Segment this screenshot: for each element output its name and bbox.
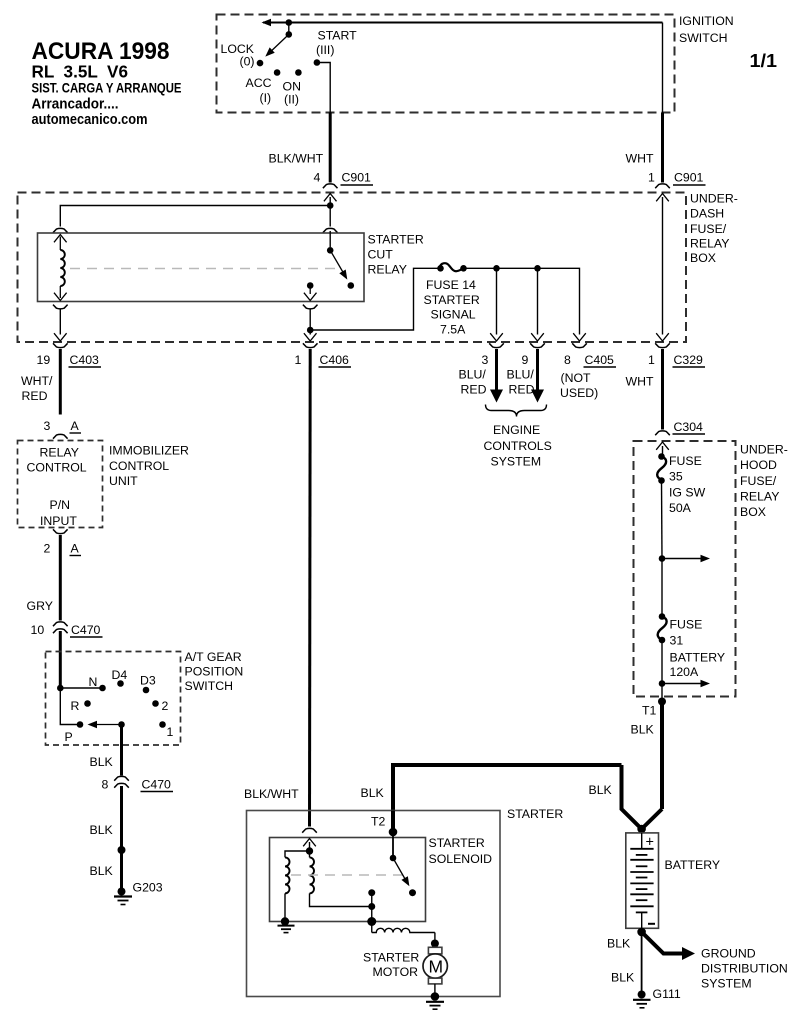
wire WHT to C304 [626,349,663,430]
svg-text:CUT: CUT [368,248,394,262]
svg-text:SIGNAL: SIGNAL [431,308,476,322]
wire ignition feed bus [263,22,663,24]
wire fuse 35 to tap [661,481,664,559]
wire A/T output BLK [90,725,122,776]
solenoid switch blade [393,858,416,896]
svg-text:GROUND: GROUND [701,947,756,961]
solenoid coil left [285,857,289,893]
switch rotor blade (pointing to LOCK) [263,34,289,59]
svg-text:CONTROL: CONTROL [109,459,169,473]
svg-text:BOX: BOX [690,251,716,265]
wire BLK to G111 [611,932,642,991]
svg-text:WHT: WHT [626,375,654,389]
svg-text:RED: RED [509,383,535,397]
wire solenoid input [303,839,316,852]
svg-text:BATTERY: BATTERY [670,651,726,665]
svg-text:1: 1 [648,171,655,185]
wire to ground distribution [607,932,695,960]
svg-text:SYSTEM: SYSTEM [491,455,542,469]
svg-text:C403: C403 [70,353,100,367]
node terminal T2 [371,815,397,837]
wire drop pin 3 [490,268,503,341]
solenoid input hump [302,828,317,832]
svg-text:(III): (III) [316,43,334,57]
node solenoid coils feed [306,847,313,854]
connector C901 pin 1 [648,171,706,189]
wire BLK/WHT to C901 [329,113,332,183]
svg-text:ENGINE: ENGINE [493,423,540,437]
relay pin hump right [323,228,338,232]
fuse F31 BATTERY 120A [658,613,725,679]
ground G111 [633,987,681,1008]
node tap 9 [534,265,541,272]
svg-text:A: A [71,419,80,433]
wire fuse 14 output bus [464,268,580,334]
svg-text:SIST. CARGA Y ARRANQUE: SIST. CARGA Y ARRANQUE [32,81,182,96]
svg-text:FUSE 14: FUSE 14 [426,278,476,292]
label not used pin 8 [560,371,598,400]
solenoid coil right [310,851,315,893]
node motor input [431,940,439,948]
svg-text:C901: C901 [342,171,372,185]
svg-text:BLK: BLK [607,937,631,951]
svg-text:UNDER-: UNDER- [690,192,738,206]
svg-text:USED): USED) [560,386,598,400]
svg-text:M: M [429,957,444,977]
svg-text:G111: G111 [653,987,681,1001]
immobilizer pin 2 A [44,529,82,555]
svg-text:8: 8 [564,353,571,367]
svg-text:BLK: BLK [90,823,114,837]
under-hood fuse/relay box [634,441,788,697]
svg-text:BLK: BLK [611,971,635,985]
node A/T input [57,685,64,692]
svg-text:CONTROLS: CONTROLS [484,439,552,453]
svg-text:BLK: BLK [361,786,385,800]
svg-text:N: N [89,675,98,689]
wire to N contact [60,687,102,689]
contact 2 [152,699,168,713]
node solenoid output [367,917,376,926]
wire BLK/WHT C406 to starter [244,349,310,827]
wire WHT/RED [21,349,60,415]
node relay feed junction [327,202,334,209]
svg-text:3: 3 [44,419,51,433]
relay switch upper contact [327,231,334,254]
fuse F14 [424,263,480,336]
svg-text:4: 4 [314,171,321,185]
svg-text:D4: D4 [112,668,128,682]
under-dash fuse/relay box [18,192,738,343]
svg-text:BOX: BOX [740,505,766,519]
motor feed coil [372,922,435,942]
svg-text:RELAY: RELAY [690,237,729,251]
relay coil [54,235,67,301]
A/T gear position switch box [46,650,244,745]
svg-text:ACC: ACC [246,76,272,90]
svg-text:31: 31 [670,634,684,648]
svg-text:T2: T2 [371,815,386,829]
svg-text:STARTER: STARTER [363,951,419,965]
wire to relay switch [329,206,331,227]
wire BLK/WHT entering box [324,194,337,206]
wire to pull-in coil [285,851,310,857]
motor ground [426,992,444,1009]
svg-text:BLU/: BLU/ [507,368,535,382]
svg-text:D3: D3 [140,674,156,688]
svg-text:9: 9 [522,353,529,367]
wire to fuse 14 [310,268,437,330]
svg-text:GRY: GRY [27,599,53,613]
svg-text:SWITCH: SWITCH [185,679,234,693]
wire entering under-hood box [656,442,669,455]
svg-text:STARTER: STARTER [424,293,480,307]
wire BLK T1 to battery [631,702,663,830]
node ignition bus junction [286,19,293,26]
svg-text:(I): (I) [260,91,272,105]
svg-text:2: 2 [44,542,51,556]
connector C329 pin 1 [648,343,705,367]
svg-text:POSITION: POSITION [185,665,244,679]
contact R [71,699,91,713]
node coil return [368,903,375,910]
relay pin hump left [53,228,68,232]
svg-text:RELAY: RELAY [368,263,407,277]
wire relay output [309,309,311,330]
svg-text:BLK/WHT: BLK/WHT [244,787,299,801]
svg-text:ON: ON [283,80,301,94]
wire down to fuse 31 [661,559,663,617]
node tap to other circuits 2 [659,680,710,687]
wire coil to C403 [53,305,68,341]
contact N [89,675,106,691]
label engine controls system [484,423,552,469]
svg-text:SWITCH: SWITCH [679,31,728,45]
svg-text:MOTOR: MOTOR [373,965,419,979]
svg-text:RELAY: RELAY [40,446,79,460]
svg-text:50A: 50A [669,501,692,515]
A/T rotor arm to P [88,721,125,728]
svg-text:C470: C470 [142,778,172,792]
svg-text:P/N: P/N [50,498,71,512]
node battery negative terminal [637,928,646,937]
svg-text:IGNITION: IGNITION [679,14,734,28]
svg-text:(II): (II) [284,93,299,107]
arrow to other circuits [262,19,272,26]
svg-text:1: 1 [648,353,655,367]
svg-text:FUSE: FUSE [669,454,702,468]
svg-text:INPUT: INPUT [40,514,77,528]
svg-text:1/1: 1/1 [750,50,778,71]
svg-text:START: START [318,29,358,43]
svg-text:CONTROL: CONTROL [27,461,87,475]
svg-text:G203: G203 [133,881,163,895]
svg-text:HOOD: HOOD [740,458,777,472]
svg-text:BLK: BLK [631,723,655,737]
switch rotor pivot [286,31,293,38]
svg-text:WHT: WHT [626,152,654,166]
brace engine controls [486,405,547,417]
svg-text:C304: C304 [674,420,704,434]
wire BLK T2 drop [391,811,395,830]
wire WHT inside switch box [662,23,664,113]
contact P [65,721,84,744]
svg-text:RELAY: RELAY [740,490,779,504]
node tap to other circuits [659,555,710,562]
svg-text:FUSE: FUSE [670,618,703,632]
svg-text:STARTER: STARTER [507,807,563,821]
svg-text:1: 1 [167,725,174,739]
wire BLK to splice [90,786,122,847]
wire WHT to C901 [661,113,664,183]
connector C470 pin 10 [31,622,103,637]
relay actuation dashed link [70,268,338,270]
starter solenoid box [270,836,493,922]
wire contact to motor node [371,893,373,922]
svg-text:10: 10 [31,623,45,637]
title block [32,38,778,128]
svg-text:7.5A: 7.5A [440,323,466,337]
svg-text:DISTRIBUTION: DISTRIBUTION [701,962,788,976]
svg-text:BLK: BLK [589,783,613,797]
svg-text:RED: RED [22,389,48,403]
svg-text:BLU/: BLU/ [459,368,487,382]
connector C304 [655,420,705,435]
svg-text:3: 3 [482,353,489,367]
contact ON (II) [295,69,302,76]
svg-text:(0): (0) [240,55,255,69]
wire drop pin 9 [531,268,544,341]
solenoid ground [278,917,295,932]
svg-text:120A: 120A [670,665,700,679]
relay output cup [303,305,318,309]
svg-text:35: 35 [669,470,683,484]
solenoid switch lower contact [368,889,375,896]
wire BLU/RED pin 9 [507,349,545,403]
wire to P contact [60,688,80,725]
node relay output junction [307,327,314,334]
relay switch lower contact [304,282,317,300]
contact D4 [112,668,128,687]
svg-text:STARTER: STARTER [368,233,424,247]
wire to relay coil [60,206,330,227]
node terminal T1 [642,698,666,718]
connector C405 pins 3 9 8 [482,343,617,367]
wire START to down run [317,63,330,113]
wire relay output to C406 [304,330,317,341]
svg-text:Arrancador....: Arrancador.... [32,96,119,113]
node tap 3 [493,265,500,272]
svg-text:2: 2 [162,699,169,713]
starter cut relay body [38,233,424,302]
contact LOCK (0) [257,60,264,67]
connector C901 pin 4 [314,171,374,189]
svg-text:BLK/WHT: BLK/WHT [269,152,324,166]
svg-text:UNDER-: UNDER- [740,443,788,457]
svg-text:C329: C329 [674,353,704,367]
svg-text:T1: T1 [642,704,657,718]
svg-text:C470: C470 [71,623,101,637]
connector C470 pin 8 [102,776,174,791]
svg-text:STARTER: STARTER [429,836,485,850]
wire drop pin 8 [573,333,586,341]
svg-text:BATTERY: BATTERY [665,858,721,872]
relay switch blade [330,250,354,289]
connector C403 pin 19 [37,343,102,367]
starter box [247,807,564,997]
svg-text:19: 19 [37,353,51,367]
wire into A/T switch [59,631,62,688]
contact START (III) [314,59,321,66]
ignition switch box [217,14,734,113]
svg-text:C405: C405 [585,353,615,367]
wire exit under-hood box [661,684,663,700]
svg-text:BLK: BLK [90,864,114,878]
svg-text:FUSE/: FUSE/ [690,222,727,236]
svg-text:WHT/: WHT/ [21,374,53,388]
svg-text:SYSTEM: SYSTEM [701,977,752,991]
svg-text:R: R [71,699,80,713]
svg-text:P: P [65,730,73,744]
wire BLK to ground [90,854,122,889]
wire coil right to contact [310,893,369,906]
svg-text:BLK: BLK [90,755,114,769]
label starter motor [363,951,419,980]
svg-text:C901: C901 [674,171,704,185]
ground G203 [114,881,163,905]
svg-text:C406: C406 [320,353,350,367]
svg-text:RL 3.5L V6: RL 3.5L V6 [32,62,129,82]
solenoid actuation dashed link [291,874,404,876]
fuse F35 IG SW 50A [657,453,705,515]
contact ACC (I) [274,69,281,76]
immobilizer pin 3 A [44,419,82,439]
wire rotor stem [288,23,290,35]
svg-text:IG SW: IG SW [669,486,706,500]
wire GRY [27,535,61,621]
starter motor M1 [423,947,447,993]
svg-text:UNIT: UNIT [109,474,138,488]
battery [626,833,720,928]
immobilizer unit label [109,444,189,489]
svg-text:automecanico.com: automecanico.com [32,111,148,128]
label ground distribution system [701,947,788,991]
svg-text:DASH: DASH [690,207,724,221]
svg-text:SOLENOID: SOLENOID [429,852,493,866]
wire BLU/RED pin 3 [459,349,504,403]
contact D3 [140,674,156,694]
wire BLK starter to battery [361,765,642,829]
svg-text:A: A [71,542,80,556]
svg-text:(NOT: (NOT [561,371,592,385]
svg-text:8: 8 [102,778,109,792]
svg-text:RED: RED [461,383,487,397]
splice node [118,846,126,854]
immobilizer control unit box [18,441,103,529]
contact 1 [159,721,173,739]
node battery positive terminal [637,825,646,834]
svg-text:IMMOBILIZER: IMMOBILIZER [109,444,189,458]
connector C406 pin 1 [295,343,352,367]
wire WHT pass-through [656,194,669,342]
svg-text:1: 1 [295,353,302,367]
wire coil left to ground [284,893,286,919]
wire fuse 31 to tap [661,640,663,684]
svg-text:A/T GEAR: A/T GEAR [185,650,242,664]
svg-text:FUSE/: FUSE/ [740,474,777,488]
solenoid switch upper contact [390,832,397,861]
